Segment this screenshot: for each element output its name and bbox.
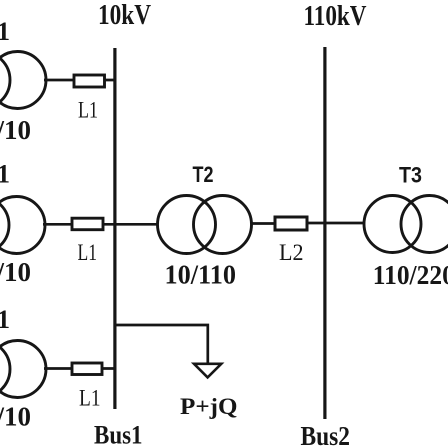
bus Bus2 (110kV busbar vertical line) bbox=[323, 47, 326, 419]
load arrow (open triangle) bbox=[194, 364, 221, 378]
transformer T3 circle a bbox=[364, 196, 421, 253]
reactor L1 (row2) bbox=[72, 218, 103, 230]
svg-text:Bus1: Bus1 bbox=[94, 421, 143, 448]
wire load branch from Bus1 bbox=[115, 325, 208, 364]
wire row3: transformer to L1 to Bus1 bbox=[44, 367, 115, 370]
svg-text:1: 1 bbox=[0, 159, 10, 188]
svg-text:L1: L1 bbox=[79, 386, 101, 411]
svg-text:T3: T3 bbox=[399, 162, 422, 187]
svg-text:T2: T2 bbox=[193, 162, 214, 187]
transformer T2 circle a bbox=[158, 196, 216, 254]
reactor L2 bbox=[275, 217, 307, 230]
svg-text:10/110: 10/110 bbox=[165, 260, 237, 290]
svg-text:110/220: 110/220 bbox=[373, 260, 448, 290]
svg-text:L1: L1 bbox=[78, 97, 98, 122]
transformer U3 circle b bbox=[0, 341, 46, 398]
transformer U2 circle b bbox=[0, 197, 45, 254]
svg-text:10kV: 10kV bbox=[98, 0, 151, 31]
svg-text:/10: /10 bbox=[0, 402, 31, 432]
svg-text:/10: /10 bbox=[0, 257, 31, 287]
svg-text:1: 1 bbox=[0, 17, 10, 46]
reactor L1 (row1) bbox=[74, 75, 105, 87]
wire row2: transformer to L1 to Bus1 to T2 bbox=[43, 223, 159, 226]
transformer T2 circle b bbox=[194, 196, 252, 254]
bus Bus1 (10kV busbar vertical line) bbox=[113, 48, 116, 409]
svg-text:P+jQ: P+jQ bbox=[180, 394, 238, 420]
svg-text:1: 1 bbox=[0, 305, 10, 334]
svg-text:L1: L1 bbox=[78, 240, 98, 265]
svg-text:110kV: 110kV bbox=[304, 1, 367, 32]
transformer T3 circle b (clipped at right) bbox=[401, 196, 448, 253]
svg-text:/10: /10 bbox=[0, 115, 31, 145]
wire T2 to L2 bbox=[251, 222, 276, 225]
svg-text:L2: L2 bbox=[279, 240, 304, 265]
transformer U2 (left, clipped) circle a bbox=[0, 197, 9, 254]
svg-text:Bus2: Bus2 bbox=[301, 421, 351, 448]
wire L2 to Bus2 to T3 bbox=[307, 222, 365, 225]
transformer U1 (left, clipped) circle a bbox=[0, 52, 10, 109]
wire row1: transformer T1a to L1 to Bus1 bbox=[44, 79, 115, 82]
transformer U3 (left, clipped) circle a bbox=[0, 341, 10, 398]
reactor L1 (row3) bbox=[72, 363, 102, 375]
transformer U1 circle b bbox=[0, 52, 46, 109]
